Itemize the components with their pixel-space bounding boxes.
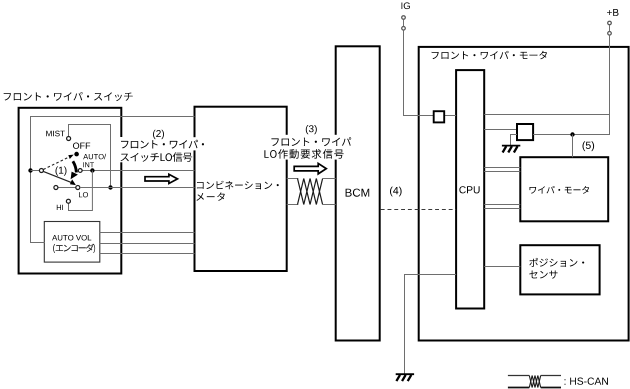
ground: chassis ground at motor connector (502, 145, 520, 147)
label (2) line1 フロント・ワイパ・ (121, 140, 204, 149)
wire: HI branch (69, 171, 93, 211)
junction: INT node (90, 168, 94, 172)
twisted pair symbol between meter and BCM (298, 179, 323, 205)
wire: meter to BCM CAN-H stub right (323, 178, 336, 180)
wire: +B feed down (609, 35, 611, 134)
wire: MIST contact riser (69, 125, 111, 186)
motor text ワイパ・モータ (530, 186, 590, 194)
box: wiper motor M1 (ワイパ・モータ) (520, 157, 608, 221)
label (3) line2 LO作動要求信号 (264, 149, 343, 159)
wire: CPU to position sensor (484, 266, 520, 268)
sensor text センサ (529, 271, 557, 279)
label (1) (56, 166, 67, 175)
wire: LO contact line segment (58, 187, 76, 189)
wire: CPU to +B rail (484, 114, 610, 116)
wire: switch common - meter feed (node A) (31, 117, 195, 243)
label (2) line2 スイッチLO信号 (121, 152, 193, 162)
wire: AUTO VOL line 3 (100, 253, 195, 255)
wire: CPU to motor connector (484, 129, 517, 131)
switch arm: solid lever with arrowhead (43, 171, 72, 182)
label (4) (390, 187, 402, 197)
wire: BCM to CPU HS-CAN (dashed, net 4) (381, 209, 456, 211)
contact: MIST terminal (67, 137, 71, 141)
wire: CPU-motor drive pair 1 (484, 168, 520, 172)
label AUTO/ (83, 154, 106, 160)
box: front wiper switch (フロント・ワイパ・スイッチ) (19, 108, 122, 274)
wire: meter to BCM CAN-H stub left (287, 178, 299, 180)
wire: meter to BCM CAN-L stub right (323, 204, 336, 206)
rotation arrow (1) arc (73, 161, 77, 172)
label OFF (73, 143, 90, 149)
wire: common to pivot (31, 170, 40, 172)
label BCM (346, 189, 370, 197)
label +B (607, 9, 619, 16)
contact: pivot of wiper switch (39, 169, 43, 173)
wire: IG inter-circle (403, 19, 405, 26)
wire: switch LO signal to meter (80, 187, 195, 189)
wire: node down to wiper motor (572, 135, 574, 158)
label background (3) (263, 135, 346, 160)
label background (2) (119, 137, 194, 162)
switch arm: dashed OFF position with arrowhead (43, 157, 69, 170)
contact: HI terminal (66, 199, 70, 203)
box: combination meter (コンビネーション・メータ) (195, 107, 287, 271)
contact: LO arm terminal (76, 186, 80, 190)
label INT (83, 162, 94, 167)
connector: IG inline connector square (434, 111, 445, 122)
box: front wiper motor assembly (フロント・ワイパ・モータ) (419, 47, 629, 341)
junction: +B to wiper motor node (5) (570, 132, 574, 136)
encoder text (エンコーダ) (53, 244, 95, 253)
label CPU (459, 186, 479, 193)
wire: INT signal to meter (82, 170, 194, 172)
contact: LO left terminal (54, 186, 58, 190)
label HI (57, 205, 63, 210)
wire: AUTO VOL line 1 (100, 232, 195, 234)
box: AUTO VOL encoder (44, 222, 100, 263)
label MIST (46, 131, 65, 137)
wire: CPU ground run (405, 275, 457, 374)
box: position sensor (ポジション・センサ) (520, 245, 599, 294)
wire: AUTO VOL line 2 (100, 243, 195, 245)
title フロント・ワイパ・スイッチ (4, 92, 133, 101)
meter text メータ (196, 192, 224, 200)
wire: IG feed down and into CPU (404, 30, 457, 115)
title フロント・ワイパ・モータ (432, 51, 547, 60)
node: OFF position dot (74, 152, 79, 157)
connector: motor supply connector square (517, 124, 533, 140)
connector: IG terminal circles (402, 16, 406, 20)
label (2) (153, 130, 164, 139)
ground: chassis ground below BCM area (396, 373, 414, 375)
label LO (79, 192, 88, 197)
sensor text ポジション・ (529, 258, 584, 267)
label (5) (583, 141, 595, 151)
legend: HS-CAN twisted pair symbol (508, 375, 561, 377)
label (3) line1 フロント・ワイパ (271, 137, 351, 146)
box: BCM (336, 46, 380, 340)
wire: CPU-motor drive pair 2 (484, 205, 520, 209)
wire: connector to +B rail (533, 134, 610, 136)
signal arrow (3) front wiper LO request signal (294, 163, 326, 174)
box: CPU U1 (456, 70, 484, 308)
signal arrow (2) front wiper switch LO signal (145, 174, 178, 183)
legend text : HS-CAN (565, 378, 609, 385)
wire: connector ground branch (511, 135, 518, 146)
wire: meter to BCM CAN-L stub left (287, 204, 299, 206)
junction: switch common node (28, 168, 32, 172)
wire: +B inter-circle (609, 25, 611, 32)
contact: AUTO/INT terminal (78, 169, 82, 173)
label IG (402, 2, 410, 9)
junction: MIST rail to LO wire (108, 185, 112, 189)
meter text コンビネーション・ (197, 181, 279, 190)
label AUTO VOL (52, 235, 91, 241)
label (3) (306, 125, 317, 134)
connector: +B terminal circles (608, 21, 612, 25)
